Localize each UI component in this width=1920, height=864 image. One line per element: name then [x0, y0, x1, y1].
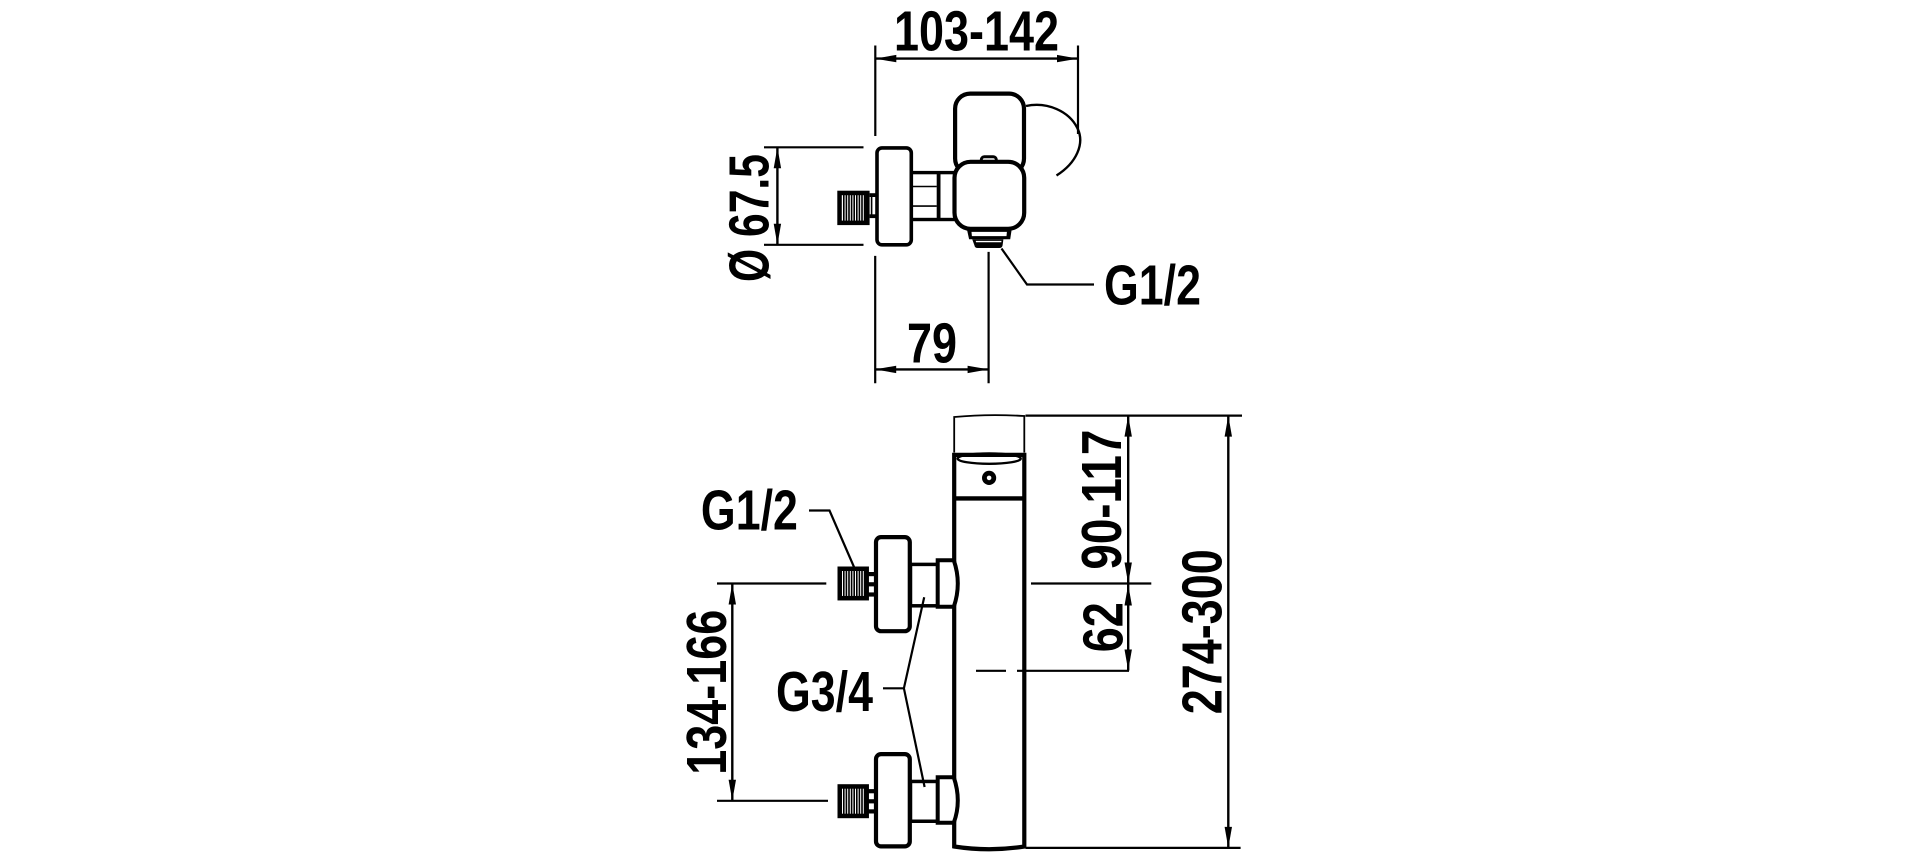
svg-text:103-142: 103-142 — [894, 0, 1059, 63]
svg-text:G3/4: G3/4 — [776, 660, 873, 723]
svg-text:90-117: 90-117 — [1070, 430, 1133, 570]
svg-text:79: 79 — [907, 311, 957, 374]
svg-text:134-166: 134-166 — [675, 610, 738, 775]
svg-text:Ø 67.5: Ø 67.5 — [718, 154, 781, 282]
svg-text:G1/2: G1/2 — [1104, 254, 1201, 317]
svg-text:G1/2: G1/2 — [701, 479, 798, 542]
svg-text:62: 62 — [1072, 602, 1135, 652]
svg-text:274-300: 274-300 — [1171, 549, 1234, 714]
